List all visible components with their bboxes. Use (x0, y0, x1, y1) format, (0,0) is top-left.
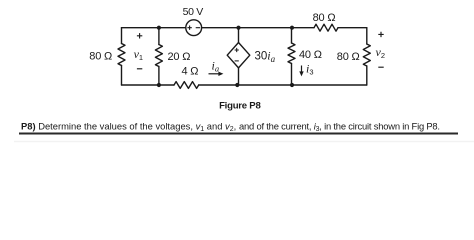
label plus sign inside dependent source (235, 48, 239, 52)
wire dependent source top lead (238, 28, 240, 43)
resistor R4 zigzag (174, 82, 199, 89)
wire left branch top lead (121, 28, 123, 44)
arrow ia current direction (209, 73, 221, 75)
label plus sign inside source (187, 26, 191, 30)
svg-text:4 Ω: 4 Ω (182, 65, 199, 77)
resistor R40 zigzag (288, 43, 295, 64)
svg-text:v1: v1 (134, 47, 144, 62)
svg-text:ia: ia (212, 58, 220, 73)
faint lower rule (14, 141, 474, 142)
svg-text:P8) Determine the values of th: P8) Determine the values of the voltages… (21, 120, 236, 133)
svg-text:30ia: 30ia (255, 49, 276, 65)
node top of 40ohm branch (290, 26, 294, 30)
node bottom of dependent source (235, 83, 239, 87)
svg-text:i3: i3 (306, 61, 314, 76)
label v1 minus sign (137, 68, 142, 70)
wire top rail right segment (338, 27, 367, 29)
wire bottom rail left segment (122, 84, 175, 86)
resistor R80left zigzag (118, 44, 125, 66)
wire top rail left segment (122, 27, 186, 29)
wire 20ohm branch bottom lead (158, 67, 160, 86)
wire right branch top lead (366, 28, 368, 44)
arrow i3 current direction (301, 66, 303, 74)
dependent source U1 diamond (227, 43, 250, 68)
wire 40ohm branch bottom lead (291, 64, 293, 86)
svg-text:v2: v2 (376, 45, 386, 60)
svg-text:40 Ω: 40 Ω (299, 49, 322, 61)
wire top rail middle segment (202, 27, 314, 29)
resistor R20 zigzag (155, 45, 162, 67)
resistor R80right zigzag (363, 44, 370, 66)
svg-text:80 Ω: 80 Ω (89, 50, 112, 62)
wire dependent source bottom lead (238, 68, 240, 85)
wire bottom rail right segment (199, 84, 367, 86)
label v2 minus sign (378, 66, 383, 68)
voltage source V1 50V circle (186, 20, 202, 36)
svg-text:Figure P8: Figure P8 (219, 100, 261, 111)
svg-text:50 V: 50 V (183, 6, 204, 18)
wire left branch bottom lead (121, 66, 123, 86)
node bottom of 40ohm branch (290, 83, 294, 87)
label v2 plus sign (378, 32, 383, 37)
node bottom of 20ohm branch (157, 83, 161, 87)
node top of dependent source (236, 26, 240, 30)
resistor R80top zigzag (314, 24, 338, 31)
svg-text:and of the current, i3, in the: and of the current, i3, in the circuit s… (239, 120, 440, 133)
svg-text:80 Ω: 80 Ω (313, 12, 336, 24)
wire right branch bottom lead (366, 66, 368, 85)
rule under problem statement (19, 133, 458, 135)
svg-text:80 Ω: 80 Ω (337, 51, 360, 63)
wire 40ohm branch top lead (291, 28, 293, 43)
svg-text:20 Ω: 20 Ω (168, 51, 191, 63)
label v1 plus sign (137, 33, 142, 38)
label minus sign inside dependent source (235, 60, 239, 62)
label minus sign inside source (196, 27, 200, 29)
node top of 20ohm branch (157, 26, 161, 30)
wire 20ohm branch top lead (158, 28, 160, 45)
